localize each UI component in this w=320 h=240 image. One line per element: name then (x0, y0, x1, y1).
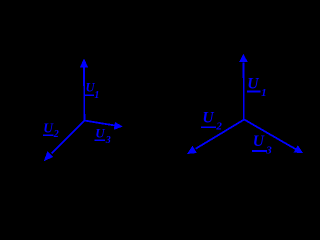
svg-text:U: U (43, 121, 54, 136)
svg-text:2: 2 (53, 129, 59, 140)
svg-text:2: 2 (215, 120, 222, 132)
svg-text:U: U (202, 110, 214, 127)
svg-text:U: U (95, 126, 105, 141)
svg-text:1: 1 (261, 87, 267, 99)
svg-text:U: U (247, 76, 259, 93)
svg-text:3: 3 (105, 135, 111, 146)
svg-text:1: 1 (94, 90, 99, 101)
svg-text:U: U (253, 133, 265, 150)
svg-text:3: 3 (265, 145, 272, 157)
